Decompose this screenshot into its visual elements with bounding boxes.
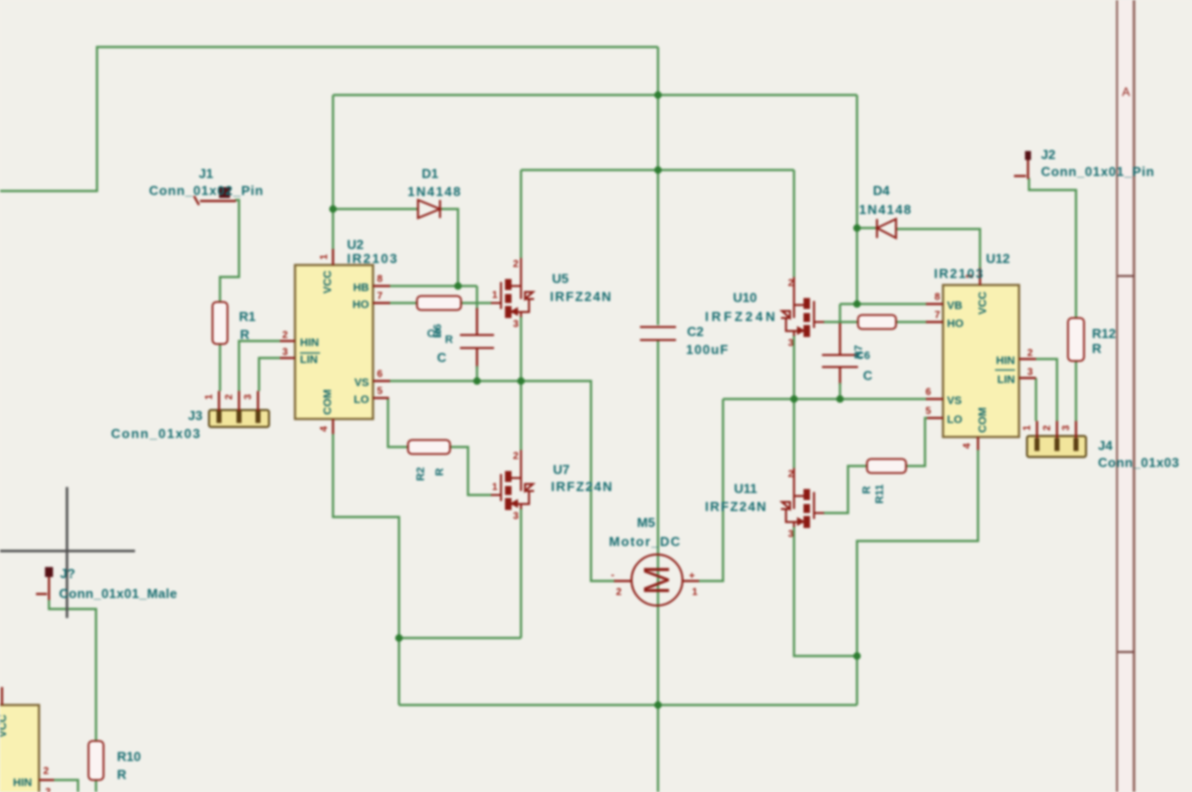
- wire D1 anode link: [335, 208, 418, 210]
- svg-text:HIN: HIN: [996, 355, 1015, 367]
- wire U2 HIN to J3 pin2: [239, 341, 280, 391]
- svg-text:7: 7: [934, 310, 940, 321]
- capacitor C5: [460, 335, 494, 348]
- resistor R10: [89, 741, 104, 780]
- svg-text:D4: D4: [873, 183, 890, 198]
- svg-text:R11: R11: [874, 484, 886, 504]
- svg-text:1: 1: [319, 254, 330, 260]
- svg-text:1N4148: 1N4148: [408, 184, 461, 199]
- wire motor plus up to right VS rail: [699, 399, 723, 581]
- svg-text:A: A: [1122, 85, 1130, 99]
- svg-text:IRFZ24N: IRFZ24N: [705, 499, 766, 514]
- wire U12 LIN to J4 pin1: [1035, 378, 1037, 421]
- svg-text:Conn_01x03: Conn_01x03: [111, 426, 200, 441]
- wire U10 drain up: [793, 170, 795, 277]
- resistor R6 gate resistor left high side: [417, 296, 461, 310]
- transistor U5 IRFZ24N: [491, 258, 534, 330]
- svg-text:2: 2: [616, 587, 622, 598]
- svg-text:R: R: [434, 468, 446, 476]
- wire D4 cathode link: [857, 227, 877, 229]
- svg-text:U5: U5: [552, 271, 569, 286]
- wire C6 bottom lead: [839, 367, 841, 385]
- svg-text:Conn_01x03: Conn_01x03: [1098, 455, 1179, 470]
- wire top V+ rail with left drop: [0, 47, 658, 191]
- svg-text:D1: D1: [422, 166, 439, 181]
- svg-text:6: 6: [377, 369, 383, 380]
- svg-text:LO: LO: [947, 414, 963, 426]
- resistor R12: [1068, 318, 1084, 361]
- svg-text:8: 8: [934, 292, 940, 303]
- svg-text:U2: U2: [347, 237, 364, 252]
- wire J1 to R1: [220, 200, 239, 302]
- wire bottom ground rail: [399, 704, 857, 706]
- wire C6 top lead: [839, 304, 841, 324]
- wire R10 bottom: [95, 780, 97, 792]
- svg-text:1: 1: [204, 394, 215, 400]
- svg-text:R2: R2: [415, 467, 427, 481]
- diode D1 1N4148: [418, 200, 440, 218]
- svg-text:VCC: VCC: [0, 714, 9, 737]
- svg-text:LIN: LIN: [997, 374, 1015, 386]
- svg-text:HO: HO: [947, 318, 964, 330]
- svg-text:2: 2: [788, 469, 794, 480]
- wire ground stub below: [657, 705, 659, 792]
- wire C5 bottom lead: [476, 348, 478, 368]
- svg-text:J?: J?: [60, 566, 75, 581]
- svg-text:3: 3: [513, 511, 519, 522]
- svg-text:R1: R1: [239, 309, 256, 324]
- wire U7 source to COM drop: [399, 637, 521, 639]
- wire U7 source down: [520, 508, 522, 638]
- svg-text:VS: VS: [354, 377, 369, 389]
- capacitor C6: [822, 355, 858, 367]
- wire R1 to J3 pin1: [219, 344, 221, 391]
- U2 pin stubs: [280, 249, 390, 434]
- svg-text:VCC: VCC: [322, 270, 334, 293]
- wire U10 source down: [793, 335, 795, 399]
- diode D4 1N4148: [877, 219, 896, 238]
- svg-text:R: R: [117, 767, 127, 782]
- wire V+ down to C2: [657, 47, 659, 325]
- wire U2 HO to gate resistor R6: [389, 302, 417, 304]
- svg-text:2: 2: [1042, 425, 1053, 431]
- svg-text:3: 3: [1061, 425, 1072, 431]
- svg-text:Conn_01x01_Pin: Conn_01x01_Pin: [1041, 164, 1154, 179]
- svg-text:3: 3: [45, 787, 51, 792]
- svg-text:HIN: HIN: [300, 337, 319, 349]
- sheet border right edge: [1117, 0, 1134, 792]
- svg-text:1: 1: [492, 290, 498, 301]
- svg-text:2: 2: [513, 259, 519, 270]
- svg-text:R: R: [240, 327, 250, 342]
- wire U2 COM down and around: [333, 434, 399, 705]
- connector J3 body: [204, 391, 269, 427]
- svg-text:C: C: [437, 350, 447, 365]
- svg-text:VB: VB: [947, 300, 962, 312]
- op-amp U? partial IC bottom-left: [0, 687, 54, 792]
- svg-text:3: 3: [1027, 367, 1033, 378]
- wire bottom-left IC pin2: [54, 780, 78, 792]
- wire R6 to U5 gate: [461, 302, 492, 304]
- transistor U11 IRFZ24N mirrored: [781, 468, 824, 528]
- svg-text:U12: U12: [986, 251, 1010, 266]
- svg-text:2: 2: [788, 278, 794, 289]
- resistor R7 gate resistor right high side: [858, 315, 896, 329]
- U12 pin stubs: [926, 268, 1036, 450]
- svg-text:Conn_01x01_Male: Conn_01x01_Male: [59, 586, 177, 601]
- svg-text:COM: COM: [322, 389, 334, 415]
- op-amp U2 IR2103 body: [280, 249, 390, 434]
- svg-text:8: 8: [377, 274, 383, 285]
- wire U2 HB to bootstrap cap C5: [389, 285, 477, 287]
- motor M5: [611, 555, 699, 606]
- svg-text:IR2103: IR2103: [934, 266, 983, 281]
- wire U5 drain up: [520, 170, 522, 258]
- svg-text:J1: J1: [199, 166, 213, 181]
- svg-text:2: 2: [1027, 348, 1033, 359]
- wire R7 to U10 gate: [823, 321, 858, 323]
- svg-text:VCC: VCC: [977, 291, 989, 314]
- svg-text:R12: R12: [1092, 326, 1116, 341]
- svg-text:2: 2: [224, 394, 235, 400]
- svg-text:M5: M5: [637, 515, 655, 530]
- wire U12 LO to R11: [906, 418, 927, 466]
- wire U2 LO to R2 to U7 gate: [388, 398, 492, 495]
- svg-text:100uF: 100uF: [686, 342, 728, 357]
- capacitor C2: [640, 327, 676, 340]
- resistor R2 gate resistor left low side: [408, 440, 450, 454]
- svg-text:-: -: [611, 570, 614, 581]
- svg-text:5: 5: [377, 386, 383, 397]
- wire U7 drain up to VS rail: [520, 382, 522, 450]
- svg-text:+: +: [689, 571, 695, 582]
- connector J4 body: [1022, 421, 1086, 457]
- svg-text:5: 5: [925, 406, 931, 417]
- svg-text:1: 1: [1022, 425, 1033, 431]
- wire U11 source down and right: [794, 526, 857, 656]
- transistor U7 IRFZ24N: [491, 450, 534, 522]
- svg-text:Motor_DC: Motor_DC: [609, 534, 681, 549]
- cursor crosshair: [0, 487, 135, 618]
- svg-text:IRFZ24N: IRFZ24N: [550, 289, 611, 304]
- svg-text:HB: HB: [353, 282, 369, 294]
- svg-text:3: 3: [788, 338, 794, 349]
- svg-text:R: R: [445, 334, 453, 346]
- svg-text:HIN: HIN: [13, 777, 32, 789]
- svg-text:2: 2: [513, 451, 519, 462]
- svg-text:C2: C2: [687, 324, 704, 339]
- svg-text:J3: J3: [188, 408, 202, 423]
- svg-text:3: 3: [788, 529, 794, 540]
- wire VS rail right: [723, 398, 927, 400]
- svg-text:J4: J4: [1098, 438, 1113, 453]
- svg-text:IR2103: IR2103: [347, 251, 397, 266]
- svg-text:R: R: [861, 486, 873, 494]
- svg-text:IRFZ24N: IRFZ24N: [551, 479, 612, 494]
- wire D4 anode to U12 pin1: [896, 229, 980, 268]
- wire VS rail left to motor minus: [389, 381, 615, 581]
- wire U5 source down: [520, 316, 522, 381]
- svg-text:R7: R7: [853, 345, 865, 359]
- wire C2 bottom lead down through motor to ground rail: [657, 341, 659, 705]
- svg-text:1: 1: [492, 482, 498, 493]
- svg-text:U11: U11: [734, 481, 757, 496]
- svg-text:7: 7: [377, 291, 383, 302]
- wire U2 LIN to J3 pin3: [259, 358, 280, 391]
- transistor U10 IRFZ24N mirrored: [781, 277, 824, 337]
- connector J? pin symbol being placed: [36, 567, 53, 600]
- svg-text:J2: J2: [1041, 147, 1055, 162]
- wire R11 to U11 gate: [823, 466, 867, 513]
- wire C5 top lead: [476, 286, 478, 310]
- wire U12 COM down and around: [857, 450, 978, 705]
- svg-text:VS: VS: [947, 395, 962, 407]
- svg-text:1N4148: 1N4148: [859, 202, 911, 217]
- svg-text:2: 2: [282, 330, 288, 341]
- svg-text:R6: R6: [432, 324, 444, 338]
- op-amp U12 IR2103 body: [925, 268, 1036, 450]
- svg-text:3: 3: [282, 347, 288, 358]
- svg-text:Conn_01x02_Pin: Conn_01x02_Pin: [149, 183, 263, 198]
- wire VCC drop right: [856, 95, 858, 304]
- svg-text:3: 3: [243, 394, 254, 400]
- svg-text:1: 1: [692, 587, 698, 598]
- resistor R1: [213, 302, 228, 344]
- wire U12 HIN to J4 pin2: [1036, 359, 1057, 421]
- wire placed pin J? to R10: [49, 600, 96, 741]
- svg-text:U7: U7: [553, 462, 570, 477]
- svg-text:R: R: [1092, 341, 1102, 356]
- wire R12 to J4 pin3: [1075, 361, 1077, 421]
- svg-text:4: 4: [962, 443, 973, 449]
- wire VCC rail: [333, 94, 857, 96]
- svg-text:U10: U10: [733, 290, 757, 305]
- wire VCC drop to U2 pin1: [332, 95, 334, 250]
- svg-text:HO: HO: [353, 299, 370, 311]
- wire J2 to R12: [1029, 178, 1076, 318]
- wire U12 HO to gate resistor R7: [896, 321, 927, 323]
- wire D1 cathode to VB node: [440, 209, 458, 286]
- svg-text:LO: LO: [354, 394, 370, 406]
- svg-text:3: 3: [513, 319, 519, 330]
- svg-text:2: 2: [43, 766, 49, 777]
- wire U12 VB row: [840, 303, 927, 305]
- svg-text:LIN: LIN: [300, 354, 318, 366]
- resistor R11 gate resistor right low side: [867, 459, 906, 473]
- svg-text:6: 6: [925, 387, 931, 398]
- svg-text:M: M: [636, 565, 677, 595]
- connector J2 pin symbol: [1014, 151, 1031, 179]
- svg-text:4: 4: [319, 426, 330, 432]
- wire U11 drain up: [793, 399, 795, 468]
- svg-text:COM: COM: [977, 407, 989, 433]
- svg-text:R10: R10: [117, 749, 141, 764]
- svg-text:C: C: [863, 368, 873, 383]
- connector J1 pin symbol: [194, 187, 236, 205]
- wire drain rail upper: [521, 169, 794, 171]
